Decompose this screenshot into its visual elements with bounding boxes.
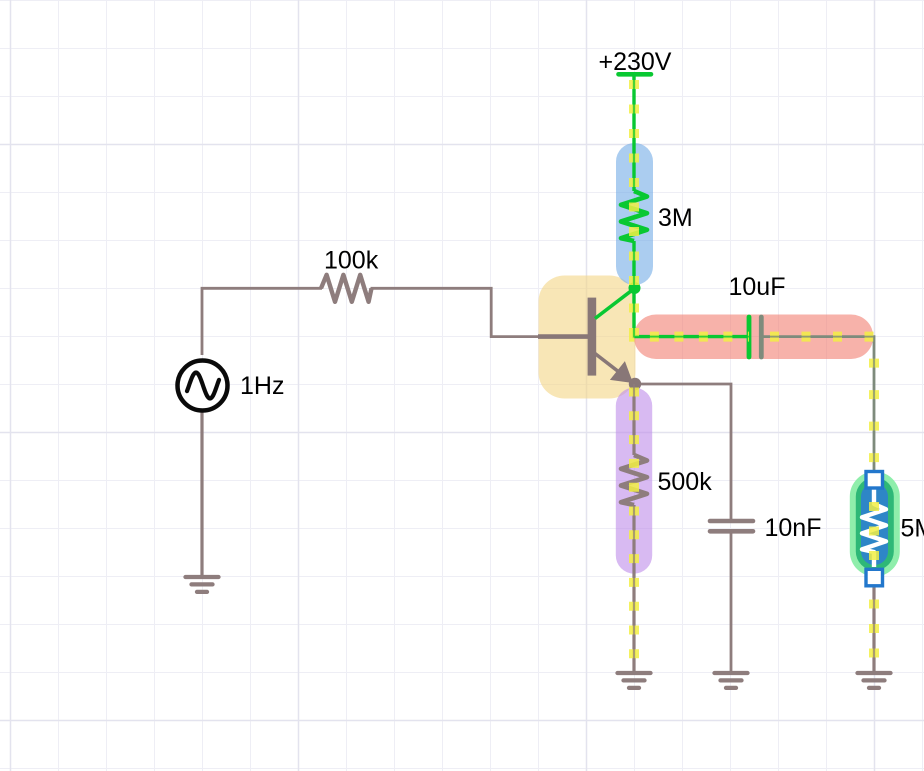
svg-text:10uF: 10uF — [729, 273, 786, 301]
transistor Q1 emitter arrow — [610, 361, 633, 383]
highlight pill purple (resistor 500k) — [616, 388, 652, 574]
thin wire cores over dashes — [634, 80, 874, 672]
ground (500k) — [618, 673, 651, 688]
wire 10nF to ground — [730, 534, 733, 673]
selection marching-ant dashes (yellow, straight over wires) — [634, 80, 874, 672]
resistor 3M zigzag (green) — [621, 191, 647, 241]
ground (source) — [186, 577, 219, 592]
wire source to ground — [200, 411, 203, 576]
transistor Q1 collector lead (green) — [595, 288, 635, 318]
svg-text:10nF: 10nF — [765, 514, 822, 542]
wires of 500k branch — [632, 384, 635, 672]
svg-text:+230V: +230V — [599, 48, 672, 76]
svg-text:1Hz: 1Hz — [240, 372, 284, 400]
wire emitter node to 10nF — [634, 384, 731, 519]
junction node collector (green dot) — [629, 282, 641, 294]
highlight pill red (capacitor 10uF) — [634, 315, 874, 360]
capacitor 10nF top plate — [710, 519, 753, 524]
transistor Q1 base lead — [538, 334, 590, 339]
resistor 500k zigzag — [621, 455, 647, 505]
green collector node wire to capacitor — [634, 288, 749, 337]
wire 10uF to 5M (gray-green) — [761, 337, 874, 486]
junction node emitter (gray dot) — [629, 378, 641, 390]
svg-text:3M: 3M — [658, 204, 693, 232]
ground (10nF) — [715, 673, 748, 688]
resistor 100k zigzag — [321, 275, 372, 302]
dashes collector net — [634, 288, 749, 337]
AC source V1 circle — [178, 361, 228, 411]
capacitor 10uF right plate (gray-green) — [759, 317, 764, 357]
AC source sine wave — [187, 373, 219, 399]
green supply wire — [632, 74, 635, 288]
highlight pill blue (resistor 3M) — [616, 143, 653, 285]
svg-text:500k: 500k — [658, 468, 713, 496]
dashes through 5M — [869, 470, 879, 576]
transistor Q1 base bar — [588, 298, 597, 376]
svg-text:100k: 100k — [324, 247, 379, 275]
selection handle 5M top — [866, 472, 883, 489]
ground (5M) — [858, 673, 891, 688]
resistor 5M white zigzag — [862, 489, 886, 567]
capacitor 10uF left plate (green) — [747, 317, 752, 357]
wire below 5M to ground — [872, 570, 875, 672]
power supply +230V bar — [619, 72, 652, 77]
selection pill inner blue (resistor 5M) — [861, 483, 888, 565]
dashes 500k branch — [629, 384, 639, 672]
selection pill outer green (resistor 5M) — [850, 472, 900, 577]
selection pill mid teal (resistor 5M) — [856, 478, 894, 571]
dashes below 5M — [869, 576, 879, 672]
dashes cap right to 5M — [761, 337, 874, 470]
wire source to base with bends — [202, 288, 540, 355]
capacitor 10nF bottom plate — [710, 529, 753, 534]
dashes supply net — [629, 80, 639, 288]
highlight pill yellow (transistor Q1) — [539, 276, 636, 399]
selection handle 5M bottom — [866, 569, 883, 586]
svg-text:5M: 5M — [901, 515, 924, 543]
transistor Q1 emitter lead — [595, 354, 628, 380]
